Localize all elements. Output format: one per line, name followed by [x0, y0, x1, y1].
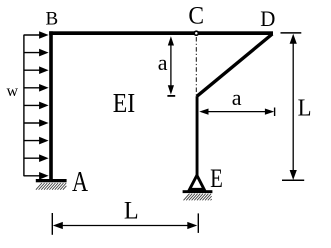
svg-text:B: B [45, 8, 58, 29]
member D-kink (diagonal) [197, 34, 273, 96]
label L (bottom dim) [124, 197, 139, 225]
svg-text:D: D [260, 6, 275, 31]
label A [72, 165, 89, 197]
dimension L right: bottom tick [282, 179, 304, 181]
centerline C (dash-dot) [195, 37, 197, 96]
dimension a vertical: bottom tick [167, 95, 175, 97]
pin support E: base bar [183, 190, 213, 193]
dimension L right: top tick [281, 32, 302, 34]
label a (horizontal dim) [232, 85, 242, 110]
dimension L right: line [290, 34, 297, 180]
label EI [113, 88, 135, 119]
svg-text:C: C [188, 2, 204, 30]
member BD (top beam) [49, 31, 273, 35]
svg-text:E: E [210, 165, 223, 194]
fixed support A: base bar [36, 179, 67, 182]
dimension L bottom: line [53, 222, 198, 229]
fixed support A: hatching [36, 183, 67, 190]
distributed load w: tail line [23, 35, 25, 177]
label B [45, 8, 58, 29]
svg-text:A: A [72, 165, 89, 197]
distributed load w: arrows [24, 31, 49, 179]
svg-text:L: L [124, 197, 139, 225]
label E [210, 165, 223, 194]
svg-text:w: w [7, 83, 19, 100]
pin support E: hatching [184, 194, 212, 201]
dimension L bottom: left tick [51, 213, 53, 235]
label D [260, 6, 275, 31]
label a (vertical dim) [158, 50, 168, 75]
dimension a horizontal: right tick [274, 108, 276, 117]
label C [188, 2, 204, 30]
hinge circle at C [194, 31, 198, 35]
dimension a vertical: line [168, 36, 174, 94]
svg-text:a: a [158, 50, 168, 75]
label w [7, 83, 19, 100]
svg-text:a: a [232, 85, 242, 110]
label L (right dim) [298, 95, 312, 122]
member kink-E (lower column) [196, 96, 199, 175]
pin support E: triangle [190, 175, 205, 189]
dimension a horizontal: line [199, 109, 274, 115]
svg-text:L: L [298, 95, 312, 122]
dimension L bottom: right tick [197, 213, 199, 233]
svg-text:EI: EI [113, 88, 135, 119]
member AB (left column) [49, 31, 53, 179]
